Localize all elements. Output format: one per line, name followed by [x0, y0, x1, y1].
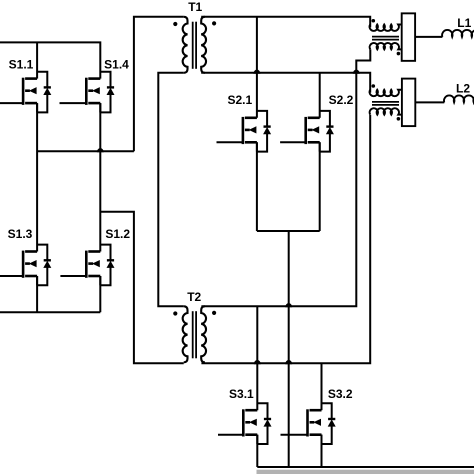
- svg-text:S1.3: S1.3: [8, 227, 33, 241]
- transistor S3.1: [218, 403, 272, 444]
- transformer T1: [173, 17, 216, 73]
- svg-text:S2.2: S2.2: [329, 93, 354, 107]
- wire S2 source rail: [257, 230, 320, 232]
- wire DC- bottom rail: [0, 311, 100, 313]
- svg-text:L1: L1: [457, 16, 471, 30]
- svg-text:S1.2: S1.2: [105, 227, 130, 241]
- transistor S2.2: [280, 111, 334, 152]
- wire S1.1 drain: [36, 42, 38, 78]
- coupled inductor B (L2 filter): [370, 79, 416, 127]
- crossover hop (T1 secondary bottom over inductor A return): [353, 70, 360, 74]
- wire coupled inductor B output to L2: [415, 101, 444, 103]
- crossover hop (T2 secondary bottom over S3.1 drain): [254, 360, 261, 364]
- wire S3.2 drain: [321, 363, 323, 410]
- wire node A (S1.4 source to S1.2 drain): [99, 103, 101, 251]
- wire T1 secondary bottom to coupled inductor B: [201, 73, 370, 93]
- svg-text:L2: L2: [456, 82, 470, 96]
- crossover hop (T2 secondary bottom over center tap): [285, 360, 292, 364]
- svg-text:S2.1: S2.1: [227, 93, 252, 107]
- wire node A to T2 primary bottom: [100, 212, 183, 364]
- wire output return rail: [257, 466, 474, 468]
- svg-text:S1.1: S1.1: [9, 57, 34, 71]
- wire T1 secondary top to coupled inductor A: [201, 17, 370, 28]
- transformer T2: [173, 306, 216, 362]
- transistor S1.1: [0, 72, 51, 113]
- wire S2 center tap to output rail: [288, 231, 290, 467]
- transistor S2.1: [217, 111, 272, 152]
- inductor L1: [442, 30, 474, 37]
- wire S2.1 drain: [256, 17, 258, 118]
- wire S1.3 source: [36, 276, 38, 312]
- crossover hop (T2 secondary top over center tap): [285, 303, 292, 307]
- crossover hop (node B tap over node A): [97, 148, 104, 152]
- svg-text:T2: T2: [187, 290, 201, 304]
- wire S3.1 source: [256, 435, 258, 467]
- wire S1.2 source: [99, 276, 101, 312]
- wire T1 primary bottom to T2 primary top: [158, 73, 183, 306]
- transistor S1.3: [0, 245, 51, 286]
- coupled inductor A (L1 filter): [370, 13, 416, 61]
- wire S2.1 source: [256, 142, 258, 231]
- inductor L2: [444, 95, 474, 102]
- svg-text:S3.1: S3.1: [229, 387, 254, 401]
- wire S3.1 drain: [256, 306, 258, 410]
- wire node B (S1.1 source to S1.3 drain): [36, 103, 38, 251]
- transistor S3.2: [281, 403, 336, 444]
- crossover hop (T1 secondary bottom over S2.1 drain): [253, 70, 260, 74]
- wire S2.2 drain: [319, 73, 321, 118]
- wire T2 secondary top to coupled inductor A bottom winding: [201, 49, 370, 306]
- wire T1 primary top: [134, 17, 184, 152]
- transistor S1.4: [60, 72, 115, 113]
- wire coupled inductor A output to L1: [415, 36, 442, 38]
- transistor S1.2: [60, 245, 114, 286]
- svg-text:S1.4: S1.4: [104, 57, 129, 71]
- wire node B tap to T1 primary top: [37, 150, 134, 152]
- wire S3.2 source: [321, 435, 323, 467]
- wire T2 secondary bottom to coupled inductor B bottom winding: [201, 115, 370, 363]
- wire DC+ top rail to S1.4 drain: [0, 42, 100, 78]
- wire S2.2 source: [319, 142, 321, 231]
- svg-text:T1: T1: [188, 0, 202, 14]
- svg-text:S3.2: S3.2: [328, 387, 353, 401]
